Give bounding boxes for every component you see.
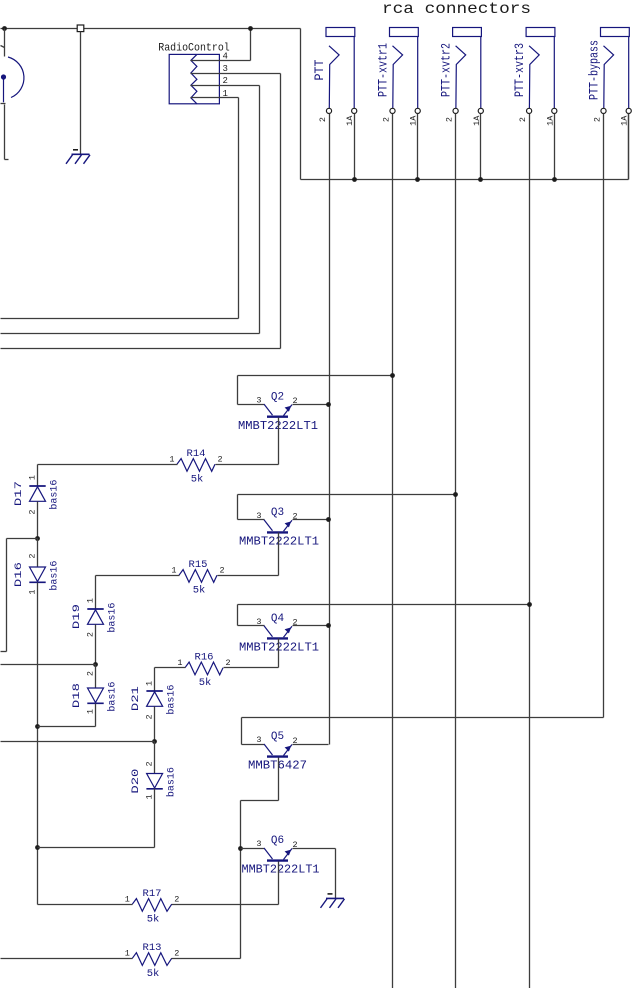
wire Q6 base down <box>278 862 280 905</box>
wire R14 pin2 to Q2 base <box>216 464 279 466</box>
wire Q3 base down <box>278 533 280 576</box>
svg-text:Q5: Q5 <box>271 731 284 743</box>
wire Q6 pin 3 stub <box>241 848 265 850</box>
value label 5k of R16 <box>199 677 212 689</box>
resistor R16 <box>185 662 223 675</box>
svg-text:5k: 5k <box>193 585 206 597</box>
value label bas16 of D17 <box>49 480 61 510</box>
transistor Q6 <box>264 848 292 861</box>
wire PTT-xvtr3 sleeve pin to bus <box>554 114 556 180</box>
wire Q3 collector net to PTT-xvtr2 <box>238 494 456 496</box>
ground G1 (top left) <box>66 150 90 164</box>
pin number 1 of R15 <box>171 566 176 576</box>
svg-text:1: 1 <box>125 895 130 905</box>
wire R17 pin2 to Q6 base <box>172 904 279 906</box>
wire Q2 collector corner down <box>237 376 239 405</box>
svg-text:5k: 5k <box>191 474 204 486</box>
svg-text:bas16: bas16 <box>49 480 61 510</box>
pin label 2 of D17 <box>27 509 37 514</box>
pin number 2 of Q3 <box>293 512 298 522</box>
wire D19 pin2 down <box>95 625 97 665</box>
pin circle 2 of PTT-xvtr1 <box>390 108 395 113</box>
pin label 1A of PTT <box>345 115 355 126</box>
wire D16 pin1 long vertical down to R17 net <box>37 583 39 905</box>
pin number 1 of R16 <box>177 658 182 668</box>
svg-text:R13: R13 <box>143 942 162 954</box>
junction D21/D20 node <box>152 739 157 744</box>
wire D21 cathode to R16 pin 1 <box>155 667 186 669</box>
wire Q2 pin 3 <box>238 404 265 406</box>
junction Q4 emitter on PTT net <box>326 623 331 628</box>
wire Q2 base down <box>278 418 280 465</box>
wire pin2 to left edge <box>1 333 260 335</box>
connector PTT-xvtr3 (rca jack) <box>526 28 555 109</box>
wire PTT-bypass sleeve pin to bus <box>628 114 630 180</box>
diode D18 <box>87 688 103 703</box>
wire branch down at x=6.6 <box>6 539 8 652</box>
connector J? (cut at left edge) arc body <box>8 57 24 98</box>
svg-text:2: 2 <box>382 117 392 122</box>
value label 5k of R15 <box>193 585 206 597</box>
svg-text:3: 3 <box>256 617 261 627</box>
diode D17 <box>29 486 45 501</box>
label Q4 <box>271 613 285 625</box>
title label: rca connectors <box>382 0 531 18</box>
svg-text:1A: 1A <box>345 115 355 126</box>
pin circle 1A of PTT-xvtr1 <box>415 108 420 113</box>
pin label 2 of PTT-xvtr3 <box>518 117 528 122</box>
junction at (4,28) <box>2 26 7 31</box>
junction Q2 emitter on PTT net <box>326 402 331 407</box>
label RadioControl <box>158 43 230 55</box>
wire Q4 pin 2 emitter to PTT net <box>293 625 329 627</box>
wire tick on mic stub <box>1 46 5 48</box>
svg-text:3: 3 <box>256 395 261 405</box>
svg-text:MMBT6427: MMBT6427 <box>248 759 307 773</box>
svg-text:bas16: bas16 <box>107 682 119 712</box>
value label bas16 of D19 <box>107 603 119 633</box>
svg-text:bas16: bas16 <box>166 685 178 715</box>
wire Q4 base down <box>278 639 280 668</box>
svg-text:R14: R14 <box>187 448 206 460</box>
svg-text:1: 1 <box>85 598 95 603</box>
pin label 2 of D18 <box>85 671 95 676</box>
wire net PTT-xvtr3 down to bottom edge <box>529 114 531 988</box>
wire D21 pin2 down <box>154 707 156 742</box>
svg-text:Q4: Q4 <box>271 613 285 625</box>
wire D17 cathode to R14 pin 1 <box>38 464 178 466</box>
pin circle 2 of PTT-xvtr2 <box>453 108 458 113</box>
junction D20 pin1 on D16 vertical <box>35 845 40 850</box>
svg-text:2: 2 <box>144 714 154 719</box>
value label MMBT2222LT1 of Q6 <box>242 863 320 877</box>
svg-text:bas16: bas16 <box>166 767 178 797</box>
wire Q4 pin 3 <box>238 625 265 627</box>
connector PTT-xvtr1 (rca jack) <box>390 28 419 109</box>
svg-text:2: 2 <box>174 895 179 905</box>
wire pin1 to left edge <box>1 318 239 320</box>
pin number 3 of Q3 <box>256 511 261 521</box>
svg-text:2: 2 <box>85 671 95 676</box>
pin label 1 of D19 <box>85 598 95 603</box>
pin label 1 of D16 <box>27 589 37 594</box>
wire Q5 collector net to PTT-bypass <box>242 717 604 719</box>
pin number 2 of Q5 <box>293 736 298 746</box>
wire D21/D20 node to left edge <box>1 741 155 743</box>
pin number 1 of R14 <box>169 455 174 465</box>
wire Q5 base left <box>241 800 279 802</box>
wire net PTT down to Q5 emitter <box>329 114 331 745</box>
pin number 2 of Q6 <box>293 840 298 850</box>
svg-text:Q6: Q6 <box>271 835 284 847</box>
pin label 1A of PTT-xvtr3 <box>545 115 555 126</box>
wire RadioControl pin 2 <box>191 85 260 87</box>
svg-text:PTT: PTT <box>313 59 327 80</box>
label PTT-xvtr2 <box>440 43 454 97</box>
junction PTT-xvtr2 sleeve on bus <box>478 177 483 182</box>
wire top net down at x=300 <box>300 29 302 180</box>
connector PTT (rca jack) <box>326 28 355 109</box>
svg-text:3: 3 <box>223 64 228 74</box>
junction D17/D16 node <box>35 536 40 541</box>
wire stub right at y=159.6 <box>5 159 9 161</box>
svg-text:D18: D18 <box>71 683 83 708</box>
svg-text:R17: R17 <box>143 888 162 900</box>
wire branch exit to left edge <box>1 651 7 653</box>
resistor R14 <box>177 459 215 472</box>
label R14 <box>187 448 206 460</box>
pin number 3 <box>223 64 228 74</box>
value label MMBT2222LT1 of Q2 <box>238 419 318 433</box>
pin number 1 of R13 <box>125 949 130 959</box>
wire pin2 down <box>259 86 261 334</box>
svg-text:PTT-bypass: PTT-bypass <box>588 40 602 100</box>
value label MMBT2222LT1 of Q4 <box>239 641 319 655</box>
wire PTT sleeve pin to bus <box>354 114 356 180</box>
pin circle 1A of PTT-xvtr2 <box>478 108 483 113</box>
connector PTT-bypass (rca jack) <box>601 28 630 109</box>
label D21 <box>130 686 142 711</box>
wire net PTT-xvtr2 down to bottom edge <box>455 114 457 988</box>
wire top net from left edge to x=300 <box>1 28 301 30</box>
svg-text:PTT-xvtr2: PTT-xvtr2 <box>440 43 454 97</box>
svg-text:2: 2 <box>27 509 37 514</box>
wire R13 pin1 to left edge <box>1 958 133 960</box>
svg-text:2: 2 <box>318 117 328 122</box>
wire bypass sleeve pin to bus end <box>628 114 630 180</box>
wire D19/D18 node to left edge <box>1 664 96 666</box>
wire from mic pin down <box>4 105 6 160</box>
wire D18 pin1 left to D16 vertical <box>38 726 96 728</box>
svg-text:R15: R15 <box>189 559 208 571</box>
svg-text:2: 2 <box>593 117 603 122</box>
label PTT <box>313 59 327 80</box>
wire RadioControl pin 3 <box>191 73 281 75</box>
pin circle 1A of PTT <box>352 108 357 113</box>
wire RadioControl pin 4 <box>191 60 251 62</box>
svg-text:1: 1 <box>177 658 182 668</box>
connector PTT-xvtr2 (rca jack) <box>453 28 482 109</box>
label Q2 <box>271 391 284 403</box>
svg-text:1: 1 <box>223 89 228 99</box>
label PTT-xvtr1 <box>377 43 391 97</box>
svg-text:5k: 5k <box>147 914 160 926</box>
connector J? center pin dot <box>1 74 6 79</box>
svg-text:D21: D21 <box>130 686 142 711</box>
transistor Q3 <box>264 520 292 533</box>
pin number 2 of R16 <box>226 658 231 668</box>
svg-text:D19: D19 <box>71 604 83 629</box>
wire R15 pin2 to Q3 base <box>218 575 279 577</box>
pin number 2 of R14 <box>218 455 223 465</box>
pin number 2 of R15 <box>220 566 225 576</box>
svg-text:5k: 5k <box>147 968 160 980</box>
junction PTT-xvtr1 sleeve on bus <box>415 177 420 182</box>
diode D19 <box>87 609 103 624</box>
label PTT-bypass <box>588 40 602 100</box>
wire branch left from D17/D16 node <box>7 538 38 540</box>
diode D20 <box>146 774 162 789</box>
svg-text:1: 1 <box>169 455 174 465</box>
label PTT-xvtr3 <box>513 43 527 97</box>
wire pin1 down <box>238 98 240 319</box>
svg-text:2: 2 <box>144 761 154 766</box>
wire D16 anode chain to R17 pin 1 <box>38 904 133 906</box>
svg-text:1: 1 <box>27 475 37 480</box>
svg-text:2: 2 <box>226 658 231 668</box>
wire PTT-xvtr1 sleeve pin to bus <box>417 114 419 180</box>
junction PTT sleeve on bus <box>352 177 357 182</box>
wire Q2 collector net to PTT-xvtr1 <box>238 375 393 377</box>
wire D18 pin2 from node <box>95 665 97 689</box>
svg-text:1: 1 <box>125 949 130 959</box>
wire D20 pin1 down <box>154 789 156 848</box>
wire D17 pin2 down <box>37 502 39 539</box>
svg-text:4: 4 <box>223 51 228 61</box>
transistor Q4 <box>264 626 292 639</box>
pin label 1A of PTT-xvtr2 <box>472 115 482 126</box>
wire D16 pin2 from node <box>37 539 39 568</box>
wire Q2 pin 2 emitter to PTT net <box>293 404 329 406</box>
pin label 2 of PTT-xvtr2 <box>445 117 455 122</box>
pin circle 1A of PTT-bypass <box>626 108 631 113</box>
svg-text:2: 2 <box>27 553 37 558</box>
pin circle 1A of PTT-xvtr3 <box>552 108 557 113</box>
transistor Q5 <box>264 744 292 757</box>
svg-text:MMBT2222LT1: MMBT2222LT1 <box>242 863 320 877</box>
pin number 2 of Q4 <box>293 618 298 628</box>
pin number 1 of R17 <box>125 895 130 905</box>
label Q3 <box>271 507 284 519</box>
label R13 <box>143 942 162 954</box>
wire D19 cathode to R15 pin 1 <box>96 575 180 577</box>
svg-text:2: 2 <box>85 632 95 637</box>
wire PTT-xvtr2 sleeve pin to bus <box>480 114 482 180</box>
pin number 3 of Q6 <box>256 839 261 849</box>
junction Q3 emitter on PTT net <box>326 517 331 522</box>
svg-text:1: 1 <box>144 681 154 686</box>
pin number 1 <box>223 89 228 99</box>
label D16 <box>13 562 25 587</box>
pin label 2 of PTT <box>318 117 328 122</box>
diode D16 <box>29 567 45 582</box>
connector RadioControl body <box>169 54 219 103</box>
pin number 2 <box>223 76 228 86</box>
wire mic connector stub down from top net <box>4 29 6 57</box>
label Q5 <box>271 731 284 743</box>
wire Q5 base down <box>278 758 280 801</box>
svg-text:1: 1 <box>144 794 154 799</box>
wire pin3 down <box>280 74 282 349</box>
pin number 3 of Q5 <box>256 735 261 745</box>
pin label 1 of D21 <box>144 681 154 686</box>
wire R16 pin2 to Q4 base <box>224 667 279 669</box>
wire Q4 collector net to PTT-xvtr3 <box>238 604 530 606</box>
svg-text:3: 3 <box>256 511 261 521</box>
junction D19/D18 node <box>93 662 98 667</box>
wire Q3 pin 2 emitter to PTT net <box>293 519 329 521</box>
value label 5k of R14 <box>191 474 204 486</box>
svg-text:D20: D20 <box>130 769 142 794</box>
svg-text:3: 3 <box>256 735 261 745</box>
wire pin4 up to top net <box>250 29 252 61</box>
pin number 2 of R13 <box>174 949 179 959</box>
value label bas16 of D21 <box>166 685 178 715</box>
wire D18 pin1 down <box>95 704 97 727</box>
svg-text:5k: 5k <box>199 677 212 689</box>
svg-text:bas16: bas16 <box>107 603 119 633</box>
wire sleeve bus under rca connectors <box>301 179 629 181</box>
wire Q3 pin 3 <box>238 519 265 521</box>
pin label 1 of D20 <box>144 794 154 799</box>
pin label 1 of D18 <box>85 709 95 714</box>
svg-text:2: 2 <box>174 949 179 959</box>
pin label 2 of PTT-xvtr1 <box>382 117 392 122</box>
svg-text:1A: 1A <box>545 115 555 126</box>
svg-text:2: 2 <box>220 566 225 576</box>
svg-text:2: 2 <box>223 76 228 86</box>
wire Q6 emitter down to ground <box>335 849 337 899</box>
junction at (250,28) <box>248 26 253 31</box>
pin label 1A of PTT-bypass <box>620 115 630 126</box>
svg-text:bas16: bas16 <box>49 561 61 591</box>
pin label 2 of D19 <box>85 632 95 637</box>
label R15 <box>189 559 208 571</box>
label Q6 <box>271 835 284 847</box>
junction PTT-xvtr3 sleeve on bus <box>552 177 557 182</box>
svg-text:RadioControl: RadioControl <box>158 43 230 55</box>
pin circle 2 of PTT <box>326 108 331 113</box>
wire Q5 pin 3 <box>242 744 265 746</box>
resistor R17 <box>132 899 171 912</box>
wire Q6 pin 2 emitter <box>293 848 336 850</box>
pin label 2 of PTT-bypass <box>593 117 603 122</box>
junction Q2 collector on PTT-xvtr1 net <box>390 373 395 378</box>
junction Q6 collector on Q5 base net <box>238 846 243 851</box>
svg-text:3: 3 <box>256 839 261 849</box>
wire net PTT-bypass down to Q5 collector net <box>603 114 605 718</box>
pin number 2 of R17 <box>174 895 179 905</box>
wire Q5 collector corner down <box>241 718 243 745</box>
pin label 2 of D20 <box>144 761 154 766</box>
resistor R13 <box>132 953 171 966</box>
junction D18 pin1 on D16 vertical <box>35 724 40 729</box>
pin circle 2 of PTT-xvtr3 <box>527 108 532 113</box>
svg-text:PTT-xvtr1: PTT-xvtr1 <box>377 43 391 97</box>
svg-text:Q2: Q2 <box>271 391 284 403</box>
pin label 2 of D16 <box>27 553 37 558</box>
pin number 4 <box>223 51 228 61</box>
value label MMBT6427 of Q5 <box>248 759 307 773</box>
svg-text:2: 2 <box>445 117 455 122</box>
value label MMBT2222LT1 of Q3 <box>239 535 319 549</box>
svg-text:1: 1 <box>171 566 176 576</box>
label D19 <box>71 604 83 629</box>
pin number 3 of Q2 <box>256 395 261 405</box>
pin number 3 of Q4 <box>256 617 261 627</box>
ground G2 (Q6 emitter) <box>321 894 345 908</box>
pin circle 2 of PTT-bypass <box>601 108 606 113</box>
value label bas16 of D20 <box>166 767 178 797</box>
svg-text:1: 1 <box>27 589 37 594</box>
wire RadioControl pin 1 <box>191 97 239 99</box>
value label bas16 of D16 <box>49 561 61 591</box>
label R16 <box>195 651 214 663</box>
svg-text:rca connectors: rca connectors <box>382 0 531 18</box>
pin label 1 of D17 <box>27 475 37 480</box>
wire tick at mic pin <box>1 103 6 105</box>
svg-text:Q3: Q3 <box>271 507 284 519</box>
resistor R15 <box>179 570 217 583</box>
transistor Q2 <box>264 404 292 417</box>
svg-text:2: 2 <box>218 455 223 465</box>
connector J? center pin lead <box>3 80 5 103</box>
value label bas16 of D18 <box>107 682 119 712</box>
wire net PTT-xvtr1 down to bottom edge <box>392 114 394 988</box>
pin label 1A of PTT-xvtr1 <box>409 115 419 126</box>
svg-text:R16: R16 <box>195 651 214 663</box>
wire D17 pin1 up to R14 net <box>37 465 39 487</box>
svg-text:D16: D16 <box>13 562 25 587</box>
wire D20 pin1 left to D16 vertical <box>38 847 155 849</box>
value label 5k of R17 <box>147 914 160 926</box>
wire Q5 base net down to R13 <box>240 801 242 959</box>
svg-text:D17: D17 <box>13 481 25 506</box>
wire D20 pin2 from node <box>154 742 156 774</box>
svg-text:1: 1 <box>85 709 95 714</box>
junction Q3 collector on PTT-xvtr2 net <box>453 492 458 497</box>
wire from square junction down to ground <box>80 32 82 155</box>
pin label 2 of D21 <box>144 714 154 719</box>
svg-text:2: 2 <box>518 117 528 122</box>
value label 5k of R13 <box>147 968 160 980</box>
square junction at (80,28) <box>77 25 84 32</box>
label D18 <box>71 683 83 708</box>
wire R13 pin2 to Q5 base net <box>172 958 241 960</box>
wire Q4 collector corner down <box>237 605 239 626</box>
wire D21 pin1 up to R16 net <box>154 668 156 692</box>
wire Q3 collector corner down <box>237 495 239 520</box>
wire pin3 to left edge <box>1 348 281 350</box>
diode D21 <box>146 691 162 706</box>
wire Q5 pin 2 emitter to PTT net end <box>293 744 329 746</box>
label D20 <box>130 769 142 794</box>
junction Q4 collector on PTT-xvtr3 net <box>527 602 532 607</box>
svg-text:PTT-xvtr3: PTT-xvtr3 <box>513 43 527 97</box>
label D17 <box>13 481 25 506</box>
pin number 2 of Q2 <box>293 396 298 406</box>
label R17 <box>143 888 162 900</box>
